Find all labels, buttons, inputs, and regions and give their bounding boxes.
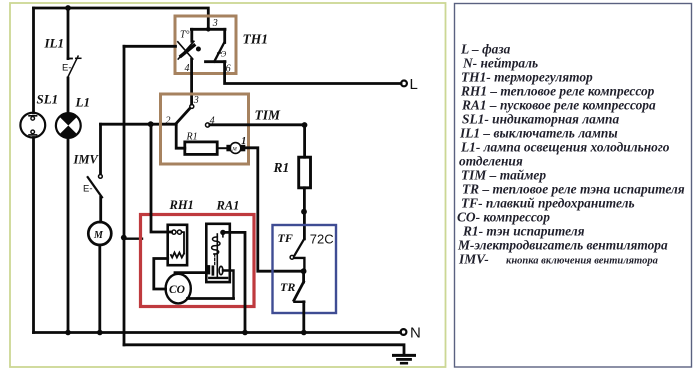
thermostat TH1 contact X and blade <box>178 41 201 59</box>
wire IL1 branch upper <box>67 8 70 59</box>
wire IL1 to L1 <box>67 78 70 113</box>
fuse TF <box>290 239 304 271</box>
wire TIM pin2 elbow to R1 <box>176 124 185 148</box>
svg-text:6: 6 <box>226 64 231 75</box>
wire motor M to N bus <box>98 245 101 333</box>
wire RA1 contact to right leg <box>223 271 234 299</box>
wire CO top to RA1 contact <box>175 271 208 274</box>
svg-text:N- нейтраль: N- нейтраль <box>462 56 538 71</box>
svg-text:CO: CO <box>169 284 185 296</box>
wire IMV to motor M <box>99 197 102 222</box>
timer TIM box <box>161 94 249 164</box>
svg-text:SL1- индикаторная лампа: SL1- индикаторная лампа <box>462 112 619 127</box>
svg-text:IL1 – выключатель лампы: IL1 – выключатель лампы <box>459 126 618 141</box>
wire N bus <box>34 331 401 334</box>
wire left branch to SL1 <box>32 8 35 113</box>
relay box RH1 RA1 <box>141 215 255 307</box>
thermal relay RH1 <box>168 225 187 265</box>
svg-text:TR – тепловое реле тэна испари: TR – тепловое реле тэна испарителя <box>462 182 685 197</box>
wire TH1 pin4 to TIM pin3 <box>190 59 193 104</box>
wire TH1 right contact <box>223 29 226 42</box>
svg-text:М: М <box>93 230 104 241</box>
thermostat TH1 box <box>175 16 236 74</box>
node pin3 junction <box>206 27 211 32</box>
svg-text:TH1: TH1 <box>243 32 269 47</box>
node junction sensor run / red box stub <box>121 235 127 241</box>
ground <box>394 355 415 363</box>
wire TH1 sensor lead <box>124 45 176 48</box>
svg-text:L1- лампа освещения холодильно: L1- лампа освещения холодильного <box>460 140 670 155</box>
node RA1 wire on N bus <box>242 330 248 336</box>
wire top bus <box>34 8 209 29</box>
node M line on N bus <box>97 330 103 336</box>
wire R1 heater to TF <box>303 188 306 239</box>
svg-text:R1: R1 <box>273 160 290 175</box>
svg-text:TR: TR <box>280 280 295 294</box>
compressor CO <box>166 274 191 304</box>
svg-text:1: 1 <box>241 136 246 147</box>
wire ground bus <box>124 345 404 354</box>
node junction feed / RH1 branch <box>148 121 154 127</box>
wire sensor vertical run <box>123 46 126 345</box>
protection box TF TR <box>273 225 337 313</box>
wire TH1 top bar <box>191 28 225 31</box>
svg-text:72C: 72C <box>310 232 334 247</box>
node L1 line on N bus <box>65 330 71 336</box>
svg-text:CO- компрессор: CO- компрессор <box>457 210 550 225</box>
wire timer motor to TF/TR junction <box>245 148 303 271</box>
wire IMV branch upper <box>99 124 102 173</box>
svg-text:RH1 – тепловое реле компрессо: RH1 – тепловое реле компрессор <box>460 84 655 99</box>
legend panel <box>457 42 685 267</box>
svg-text:RA1 – пусковое реле компрессор: RA1 – пусковое реле компрессора <box>461 98 656 113</box>
svg-text:4: 4 <box>185 63 190 74</box>
wire TH1 left contact <box>190 29 193 41</box>
wire feed into RH1 <box>151 124 172 232</box>
svg-text:м: м <box>231 145 237 153</box>
resistor R1 timer <box>185 142 217 155</box>
lamp L1 <box>56 113 81 138</box>
svg-text:T°: T° <box>180 30 190 41</box>
svg-text:R1- тэн испарителя: R1- тэн испарителя <box>462 224 585 239</box>
svg-text:L: L <box>410 76 418 93</box>
button IMV <box>83 175 102 198</box>
svg-text:RH1: RH1 <box>169 198 194 212</box>
svg-text:L1: L1 <box>75 95 90 110</box>
node junction TF/TR/motor <box>301 268 307 274</box>
start relay RA1 <box>206 224 230 282</box>
thermal relay TR <box>294 271 304 332</box>
wire pin4 to R1 heater <box>210 125 305 157</box>
node dot above TF <box>301 209 307 215</box>
svg-text:TH1- терморегулятор: TH1- терморегулятор <box>461 70 593 85</box>
svg-text:SL1: SL1 <box>37 92 59 107</box>
svg-text:L – фаза: L – фаза <box>460 42 511 57</box>
svg-text:Э: Э <box>221 50 227 59</box>
switch IL1 <box>62 56 81 77</box>
wire RH1 to compressor CO <box>154 259 168 290</box>
wire TH1 bottom bar pin6 <box>206 60 226 63</box>
node junction top bus / IL1 branch <box>65 5 71 11</box>
svg-text:TF- плавкий предохранитель: TF- плавкий предохранитель <box>461 196 635 211</box>
node corner dot R1 top <box>302 122 308 128</box>
node TR line on N bus <box>301 330 307 336</box>
wire RA1 top dot stub <box>222 235 224 237</box>
lamp SL1 <box>20 113 45 138</box>
wire L1 to N bus <box>67 138 70 333</box>
wire stub to relay box <box>124 237 142 239</box>
svg-text:N: N <box>410 325 421 342</box>
svg-text:TIM – таймер: TIM – таймер <box>461 168 546 183</box>
terminal N <box>401 325 421 342</box>
svg-text:TF: TF <box>278 231 293 245</box>
timer TIM blade <box>176 108 190 123</box>
wire CO bottom <box>188 297 234 300</box>
svg-text:3: 3 <box>212 18 218 29</box>
svg-text:IMV: IMV <box>73 153 100 167</box>
timer TIM pin4 contact <box>206 123 210 127</box>
terminal L <box>401 76 418 93</box>
svg-text:М-электродвигатель вентилятора: М-электродвигатель вентилятора <box>457 238 668 253</box>
svg-text:3: 3 <box>193 95 199 106</box>
timer TIM pin3 contact <box>190 104 194 108</box>
wire pin6 to L terminal <box>225 62 401 84</box>
motor M timer <box>226 143 245 154</box>
resistor R1 evaporator heater <box>299 157 311 188</box>
svg-text:отделения: отделения <box>459 154 523 169</box>
contact plate RA1 <box>207 267 210 274</box>
svg-text:2: 2 <box>166 116 171 127</box>
wire RA1 to N bus <box>223 232 245 332</box>
svg-text:R1: R1 <box>186 132 198 143</box>
svg-text:RA1: RA1 <box>216 199 240 213</box>
wire R1 to timer motor <box>217 147 226 149</box>
svg-text:E-: E- <box>83 184 93 195</box>
node RA1 top terminal <box>220 230 225 235</box>
thermostat TH1 right blade <box>214 43 224 62</box>
mark Э heater <box>218 50 227 59</box>
svg-text:IL1: IL1 <box>44 36 65 51</box>
wire SL1 to N bus <box>32 138 35 333</box>
wire pin2 feed horizontal <box>101 123 177 126</box>
svg-text:TIM: TIM <box>255 108 282 123</box>
svg-text:E-: E- <box>62 63 72 74</box>
motor M fan <box>88 222 111 245</box>
